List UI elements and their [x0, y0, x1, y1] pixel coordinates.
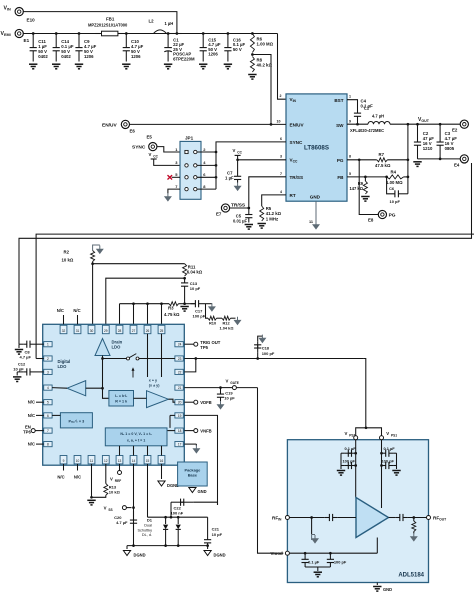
wire drain LDO internal net — [86, 356, 109, 399]
svg-text:29: 29 — [104, 329, 108, 333]
ground above C18 — [259, 335, 266, 343]
svg-text:EN/UV: EN/UV — [290, 123, 305, 128]
capacitor C15 — [200, 32, 221, 61]
svg-text:Dual: Dual — [144, 524, 152, 528]
svg-text:TR/SS: TR/SS — [290, 175, 304, 180]
ground under C9 — [75, 64, 83, 69]
connector E5 (SYNC) — [132, 135, 157, 151]
U1 top pin tabs — [60, 325, 165, 333]
svg-text:N/C: N/C — [73, 308, 80, 313]
capacitor C8 (pin1) — [19, 341, 44, 360]
testpoint VDFB — [184, 400, 211, 405]
ground VOUT caps — [413, 162, 421, 167]
svg-text:TP6: TP6 — [23, 430, 31, 435]
wire gate amp to VDFB pin — [168, 399, 175, 402]
svg-text:40.2 kΩ: 40.2 kΩ — [257, 63, 273, 68]
inductor L2 — [126, 19, 181, 34]
resistor R3 — [120, 302, 186, 317]
JP1 pin 1 number — [175, 147, 178, 152]
svg-text:5: 5 — [47, 401, 49, 405]
testpoint VSS — [104, 506, 132, 512]
port RFOUT — [427, 516, 447, 522]
capacitor C30 (100pF) — [327, 553, 347, 567]
svg-text:4.75 kΩ: 4.75 kΩ — [164, 312, 180, 317]
capacitor C17 (100pF) — [185, 300, 212, 318]
svg-text:9: 9 — [63, 459, 65, 463]
bias controller U1 body — [43, 324, 185, 465]
svg-text:FB: FB — [337, 175, 344, 180]
capacitor C9 — [75, 32, 96, 61]
wire bus to pin 2 — [36, 358, 44, 360]
node VIN/VEMI junction — [176, 32, 179, 35]
svg-text:RFOUT: RFOUT — [433, 516, 446, 522]
svg-text:VIN: VIN — [290, 97, 297, 103]
capacitor C14 — [53, 32, 74, 61]
svg-text:C6: C6 — [389, 186, 395, 191]
wire TR/SS — [230, 177, 286, 210]
wire VEMI rail — [23, 33, 277, 35]
jumper JP1 body — [180, 136, 201, 200]
svg-text:LDO: LDO — [112, 345, 122, 350]
port VPS2 — [345, 431, 358, 440]
svg-text:4: 4 — [47, 386, 49, 390]
wire Vmod internal — [289, 538, 377, 555]
svg-text:RT: RT — [290, 193, 296, 198]
wire pin 11 to ground — [90, 464, 93, 499]
svg-text:V: V — [345, 431, 348, 436]
capacitor C23 (0.1uF) — [341, 446, 356, 457]
svg-text:6TPE220M: 6TPE220M — [173, 56, 195, 61]
svg-text:GND: GND — [198, 489, 207, 494]
svg-text:1206: 1206 — [208, 52, 218, 57]
ground at R3 node — [180, 307, 188, 312]
svg-text:E7: E7 — [216, 212, 222, 217]
svg-text:10 kΩ: 10 kΩ — [62, 258, 74, 263]
svg-text:SW: SW — [336, 123, 344, 128]
port RFIN — [272, 516, 289, 522]
svg-text:V: V — [149, 152, 152, 157]
svg-text:100 pF: 100 pF — [343, 458, 356, 463]
svg-text:10 pF: 10 pF — [224, 396, 235, 401]
svg-text:3: 3 — [47, 370, 49, 374]
svg-text:1206: 1206 — [84, 54, 94, 59]
regulator U2 LT8608S body — [286, 94, 347, 201]
svg-text:GND: GND — [310, 194, 321, 199]
svg-text:6.04 kΩ: 6.04 kΩ — [187, 270, 203, 275]
capacitor C11 — [30, 32, 49, 61]
svg-text:Nₓ 1 = 0 V, Vₓ 1 = tₓ: Nₓ 1 = 0 V, Vₓ 1 = tₓ — [120, 432, 152, 436]
pin number 10 — [277, 119, 281, 123]
capacitor C20 (VSS) — [114, 511, 137, 530]
connector E1 (VEMI) — [15, 29, 29, 43]
resistor R7 (PG pullup) — [347, 152, 409, 168]
capacitor C16 — [224, 32, 245, 61]
ground under C1 — [164, 64, 172, 69]
ground under C11 — [29, 64, 37, 69]
svg-text:x + y: x + y — [149, 379, 158, 383]
svg-text:16: 16 — [160, 459, 164, 463]
svg-text:E2: E2 — [452, 128, 458, 133]
svg-text:REF: REF — [115, 479, 121, 483]
svg-text:SYNC: SYNC — [132, 144, 146, 150]
svg-text:GATE: GATE — [230, 381, 239, 385]
RF amplifier U3 body — [287, 440, 428, 583]
svg-text:R3: R3 — [168, 306, 174, 311]
svg-text:ADL5184: ADL5184 — [398, 573, 424, 579]
svg-text:1.00 MΩ: 1.00 MΩ — [257, 42, 274, 47]
svg-text:N/C: N/C — [28, 442, 35, 447]
capacitor C7 — [225, 160, 241, 183]
svg-text:100 pF: 100 pF — [334, 560, 347, 565]
svg-text:147 kΩ: 147 kΩ — [349, 186, 363, 191]
resistor R6 — [250, 32, 273, 52]
svg-text:VDFB: VDFB — [200, 400, 211, 405]
svg-text:10 pF: 10 pF — [13, 367, 24, 372]
ground at C12 — [13, 372, 21, 382]
svg-text:CC: CC — [153, 154, 158, 158]
wire pins 22-23 loop — [184, 359, 196, 372]
wire EN/UV line — [130, 123, 287, 126]
svg-text:19: 19 — [178, 414, 182, 418]
wire VOUT gnd rail — [418, 158, 461, 161]
svg-text:1: 1 — [349, 95, 351, 99]
ground DGND left — [123, 546, 145, 558]
capacitor C22 (100nF) — [170, 499, 218, 519]
svg-text:R10: R10 — [209, 320, 216, 325]
wire R6/R8 tap to EN/UV — [252, 55, 271, 125]
svg-text:18: 18 — [178, 429, 182, 433]
wire pin 17 to ground — [184, 444, 196, 446]
pin label SYNC — [290, 140, 303, 145]
diode D1b — [176, 517, 181, 547]
node VOUT label — [418, 117, 430, 123]
ground under C15 — [199, 64, 207, 69]
pin label TR/SS — [290, 175, 304, 180]
wire LT GND pin 11 — [309, 201, 316, 224]
svg-text:N/C: N/C — [74, 475, 81, 480]
pin number 5 — [349, 172, 351, 176]
ferrite bead FB1 — [88, 17, 128, 36]
svg-text:FB1: FB1 — [106, 17, 115, 22]
svg-text:CC: CC — [237, 151, 242, 155]
wire bypass gnd rail — [305, 567, 330, 571]
op-amp RF gain block — [356, 498, 389, 538]
wire VPS2 internal — [354, 440, 357, 498]
resistor R9 (FB bottom) — [349, 177, 367, 194]
svg-text:TP5: TP5 — [200, 345, 208, 350]
wire RF input — [289, 516, 324, 519]
op-amp drain LDO — [95, 339, 123, 356]
svg-text:1 µF: 1 µF — [225, 176, 234, 181]
svg-text:0.1 µF: 0.1 µF — [345, 446, 357, 451]
svg-text:10 pF: 10 pF — [190, 286, 201, 291]
svg-text:1.04 kΩ: 1.04 kΩ — [220, 325, 234, 330]
svg-text:17: 17 — [178, 443, 182, 447]
svg-text:14: 14 — [132, 459, 136, 463]
svg-text:0805: 0805 — [445, 146, 455, 151]
svg-text:D1: D1 — [147, 518, 153, 523]
wire pin 14 VSS branch — [132, 464, 135, 547]
wire VSS bottom rail — [127, 545, 208, 547]
svg-text:BST: BST — [334, 98, 343, 103]
svg-text:DGND: DGND — [134, 552, 146, 557]
port Vmod — [271, 551, 290, 556]
svg-text:0.1 µF: 0.1 µF — [308, 560, 320, 565]
pin label VIN — [290, 97, 297, 103]
svg-text:XFL4020-472MEC: XFL4020-472MEC — [350, 128, 384, 133]
resistor R11 — [183, 264, 203, 276]
block package base — [178, 462, 208, 486]
pin number 2 — [280, 94, 282, 98]
svg-text:32: 32 — [62, 329, 66, 333]
node VIN input label — [4, 6, 12, 12]
svg-text:N/C: N/C — [28, 400, 35, 405]
connector E6 (EN/UV) — [102, 120, 135, 133]
svg-text:1 µH: 1 µH — [165, 21, 174, 26]
svg-text:(x ± y): (x ± y) — [149, 383, 160, 387]
svg-text:1210: 1210 — [423, 146, 433, 151]
svg-text:JP1: JP1 — [185, 136, 194, 141]
svg-text:0.1 µF: 0.1 µF — [384, 446, 396, 451]
capacitor C3 (4.7uF) — [437, 123, 458, 159]
wire pins 22-25 bus up — [120, 302, 163, 324]
svg-text:7: 7 — [47, 429, 49, 433]
resistor R8 — [250, 53, 272, 72]
svg-text:10 pF: 10 pF — [390, 199, 401, 204]
pin number 7 — [280, 172, 282, 176]
svg-text:E8: E8 — [368, 218, 374, 223]
pin label BST — [334, 98, 343, 103]
capacitor C18 (100pF drain) — [254, 336, 275, 358]
ground RF out shunt — [410, 533, 417, 541]
svg-text:4: 4 — [280, 190, 282, 194]
JP1 pin 6 number — [203, 172, 206, 177]
pin label PG — [337, 158, 344, 163]
svg-text:V: V — [104, 506, 107, 511]
capacitor C28 (RF out) — [389, 514, 427, 521]
svg-text:x, a, + t = 1: x, a, + t = 1 — [127, 439, 145, 443]
resistor R2 with ground hook — [62, 245, 104, 263]
ground after R12 — [234, 317, 241, 325]
svg-text:E1: E1 — [24, 38, 30, 43]
ground RF in shunt — [312, 518, 319, 544]
svg-text:3: 3 — [280, 155, 282, 159]
svg-text:MPZ2012S101AT000: MPZ2012S101AT000 — [88, 23, 128, 28]
ground LT pin 11 — [313, 221, 320, 229]
JP1 pin 2 number — [203, 147, 206, 152]
ground at C8 — [15, 344, 23, 354]
JP1 pin 8 number — [203, 184, 206, 189]
capacitor C25 (0.1uF) — [382, 446, 397, 457]
pin number 4 — [280, 190, 282, 194]
block power mode — [60, 413, 92, 428]
no-connect X on JP1 pin5 — [168, 175, 181, 179]
svg-text:0402: 0402 — [38, 54, 48, 59]
ground under C14 — [52, 64, 60, 69]
svg-text:21: 21 — [178, 386, 182, 390]
ground under R9 — [361, 197, 369, 202]
svg-text:L2: L2 — [149, 19, 155, 24]
testpoint VNFB — [184, 429, 211, 434]
svg-text:25: 25 — [160, 329, 164, 333]
U1 top N/C pins — [57, 308, 81, 324]
connector E2 (VOUT) — [452, 120, 468, 132]
svg-text:Pₘₒᵈₑ × 3: Pₘₒᵈₑ × 3 — [68, 420, 84, 424]
pin number 3 — [280, 155, 282, 159]
pin label SW — [336, 123, 344, 128]
svg-text:12: 12 — [104, 459, 108, 463]
svg-text:R2: R2 — [64, 250, 70, 255]
capacitor C12 (pin3) — [13, 362, 43, 376]
capacitor C1 — [164, 32, 195, 61]
pin number 8 — [349, 155, 351, 159]
wire diode top rail — [148, 516, 208, 519]
svg-text:N/C: N/C — [57, 475, 64, 480]
capacitor C26 (100pF) — [382, 458, 397, 469]
pin number 9 — [349, 120, 351, 124]
svg-text:1: 1 — [47, 343, 49, 347]
wire VNEG trunk — [184, 415, 217, 505]
testpoint EN TP6 — [23, 425, 44, 435]
svg-text:E4: E4 — [454, 163, 460, 168]
ground package base — [189, 488, 207, 494]
op-amp digital LDO — [58, 359, 86, 396]
wire JP1 right-side common to SYNC pin — [197, 142, 286, 189]
wire divider top line — [93, 263, 185, 265]
ground under C10 — [122, 64, 130, 69]
capacitor C10 — [123, 32, 144, 61]
wire VPS split — [356, 426, 382, 435]
svg-text:9: 9 — [349, 120, 351, 124]
connector E4 (GND) — [454, 155, 468, 168]
op-amp gate control — [147, 379, 169, 408]
svg-text:LT8608S: LT8608S — [304, 145, 329, 152]
U1 bottom pin tabs — [60, 456, 165, 464]
svg-text:R = 1 k: R = 1 k — [115, 400, 128, 404]
wire VIN rail to filter output node — [23, 12, 177, 34]
ground VPS2 caps — [337, 453, 345, 475]
svg-text:1.00 MΩ: 1.00 MΩ — [386, 180, 403, 185]
svg-text:R4: R4 — [391, 169, 397, 174]
svg-text:6: 6 — [280, 137, 282, 141]
ground after C17 — [209, 303, 216, 311]
switch on drain line — [103, 354, 175, 360]
pin label FB — [337, 175, 344, 180]
node VEMI input label — [1, 31, 11, 37]
svg-text:13: 13 — [118, 459, 122, 463]
wire internal pins 29-30 stubs — [148, 334, 162, 377]
wire rail corner into LT VIN — [278, 34, 287, 100]
U1 left N/C pins — [28, 400, 44, 447]
node VCC rail tap at C7 — [233, 148, 287, 161]
ground under pin 11 — [87, 500, 95, 505]
resistor R14 (RF out shunt) — [412, 518, 416, 534]
wire R2 to chip pin 27 — [91, 262, 94, 325]
svg-text:PG: PG — [389, 213, 396, 219]
svg-text:100 pF: 100 pF — [262, 351, 275, 356]
ground JP1 pin7 — [165, 189, 181, 201]
svg-text:22: 22 — [178, 370, 182, 374]
diode D1 labels — [137, 518, 152, 538]
capacitor C13 — [181, 278, 201, 304]
svg-text:6: 6 — [47, 414, 49, 418]
svg-text:Base: Base — [188, 473, 198, 478]
wire VGATE trunk down — [258, 388, 284, 554]
pin label GND — [310, 194, 321, 199]
svg-text:26: 26 — [146, 329, 150, 333]
svg-text:50 V: 50 V — [233, 47, 242, 52]
wire pin 6 to power mode block — [52, 414, 60, 416]
svg-text:V: V — [386, 431, 389, 436]
svg-text:DL, d.: DL, d. — [142, 533, 152, 537]
ground Vmod caps — [314, 572, 322, 577]
wire VDD drain line — [184, 357, 364, 360]
JP1 pin 3 number — [175, 160, 178, 165]
svg-text:28: 28 — [118, 329, 122, 333]
ground DGND right — [204, 546, 226, 558]
svg-text:0402: 0402 — [61, 54, 71, 59]
diode D1a — [163, 517, 168, 547]
svg-text:30: 30 — [90, 329, 94, 333]
block gate clamp — [105, 428, 167, 446]
svg-text:20: 20 — [178, 401, 182, 405]
ground under R8 — [248, 75, 256, 80]
ground VPS1 caps — [392, 453, 400, 475]
capacitor C24 (100pF) — [341, 458, 356, 469]
U1 right pin tabs — [175, 342, 183, 447]
capacitor C2 (47uF) — [407, 123, 435, 159]
testpoint TRIG OUT (TP5) — [184, 340, 220, 350]
svg-text:15: 15 — [146, 459, 150, 463]
pin number 6 — [280, 137, 282, 141]
ground under C5 — [245, 225, 253, 230]
capacitor C4 (BST) — [347, 99, 373, 125]
svg-text:R7: R7 — [379, 152, 385, 157]
svg-text:47.5 kΩ: 47.5 kΩ — [375, 163, 391, 168]
resistor R4 (FB top) — [347, 169, 409, 185]
JP1 pin 4 number — [203, 160, 206, 165]
svg-text:4.7 µH: 4.7 µH — [372, 114, 384, 119]
svg-text:11: 11 — [309, 220, 313, 224]
svg-text:2: 2 — [47, 357, 49, 361]
testpoint VREF — [110, 464, 122, 483]
svg-text:24: 24 — [178, 343, 182, 347]
svg-text:7: 7 — [280, 172, 282, 176]
svg-text:PS1: PS1 — [391, 433, 397, 437]
ground under C19 — [217, 401, 224, 409]
svg-text:10: 10 — [76, 459, 80, 463]
pin label VCC — [290, 158, 298, 164]
wire VPS1 internal — [380, 440, 383, 508]
ground under C7 — [234, 183, 241, 191]
svg-text:LDO: LDO — [58, 364, 68, 369]
wire ref block to gate amp — [134, 397, 147, 399]
wire SYNC conn to JP1 pin1 — [157, 147, 180, 152]
svg-text:E5: E5 — [147, 135, 153, 140]
svg-text:1206: 1206 — [131, 54, 141, 59]
wire digital LDO output to pin 4 — [52, 387, 67, 390]
capacitor C5 — [233, 208, 252, 224]
block reference resistor — [109, 391, 134, 407]
svg-text:VCC: VCC — [290, 158, 298, 164]
svg-text:27: 27 — [132, 329, 136, 333]
svg-text:4.7 µF: 4.7 µF — [20, 355, 32, 360]
resistor R10 and R12 to ground — [206, 304, 236, 331]
svg-text:EN/UV: EN/UV — [102, 123, 117, 129]
capacitor C19 (VGATE) — [217, 388, 235, 402]
U1 bottom N/C pins — [57, 464, 81, 480]
ground DGND pin16 — [158, 464, 179, 488]
